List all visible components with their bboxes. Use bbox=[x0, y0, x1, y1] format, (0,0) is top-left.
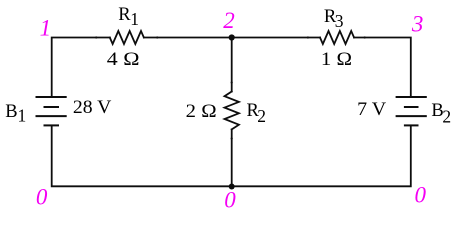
svg-text:R: R bbox=[118, 5, 131, 25]
svg-text:0: 0 bbox=[224, 188, 236, 213]
battery B2 plate long bbox=[396, 115, 427, 117]
battery B1 plate short bbox=[44, 106, 60, 108]
battery B1 plate long bbox=[36, 115, 67, 117]
label R3 bbox=[324, 7, 344, 31]
battery B1 plate long top (+) bbox=[36, 96, 67, 98]
svg-text:2: 2 bbox=[223, 8, 235, 33]
wire node2 middle drop to R2 bbox=[231, 38, 233, 92]
svg-text:2: 2 bbox=[257, 106, 266, 126]
label B1 bbox=[5, 102, 26, 126]
svg-text:1: 1 bbox=[18, 106, 27, 126]
wire node0 bottom rail: B1 down, across, up to B2 bbox=[52, 126, 411, 187]
svg-text:3: 3 bbox=[335, 11, 344, 31]
pin R2 bottom bbox=[231, 137, 233, 139]
pin R1 left bbox=[95, 36, 97, 38]
label R2 bbox=[247, 101, 267, 126]
resistor R2 bbox=[225, 92, 239, 130]
pin R2 top bbox=[231, 81, 233, 83]
label R1 bbox=[118, 5, 139, 29]
svg-text:3: 3 bbox=[411, 11, 424, 36]
battery B1 plate short bottom (-) bbox=[44, 124, 60, 126]
wire node3 top-right: top rail from R3 + right rail down to B2 bbox=[354, 38, 411, 98]
label B2 bbox=[431, 101, 451, 126]
svg-text:1: 1 bbox=[130, 9, 139, 29]
svg-text:1: 1 bbox=[40, 16, 52, 41]
wire node1 top-left: left rail up from B1 + top rail to R1 bbox=[52, 38, 110, 98]
svg-text:B: B bbox=[5, 102, 17, 122]
wire node2 top: R1 to R3 across junction bbox=[144, 37, 320, 39]
pin R1 right bbox=[156, 36, 158, 38]
battery B2 bbox=[396, 97, 427, 125]
svg-text:0: 0 bbox=[36, 185, 48, 210]
svg-text:28 V: 28 V bbox=[73, 98, 112, 118]
pin R3 right bbox=[364, 36, 366, 38]
battery B2 plate short bbox=[404, 106, 419, 108]
junction node 0 bbox=[229, 184, 235, 190]
junction node 2 bbox=[229, 34, 235, 40]
wire R2 bottom drop to node0 bbox=[231, 129, 233, 186]
battery B1 bbox=[36, 97, 67, 125]
svg-text:0: 0 bbox=[415, 183, 427, 208]
svg-text:4 Ω: 4 Ω bbox=[107, 50, 140, 70]
resistor R3 bbox=[320, 31, 354, 44]
pin R3 left bbox=[307, 36, 309, 38]
svg-text:2: 2 bbox=[442, 107, 451, 127]
battery B2 plate short bottom (-) bbox=[404, 124, 419, 126]
svg-text:2 Ω: 2 Ω bbox=[186, 102, 217, 122]
battery B2 plate long top (+) bbox=[396, 96, 427, 98]
svg-text:7 V: 7 V bbox=[357, 100, 387, 120]
resistor R1 bbox=[110, 31, 144, 44]
svg-text:1 Ω: 1 Ω bbox=[321, 50, 352, 70]
